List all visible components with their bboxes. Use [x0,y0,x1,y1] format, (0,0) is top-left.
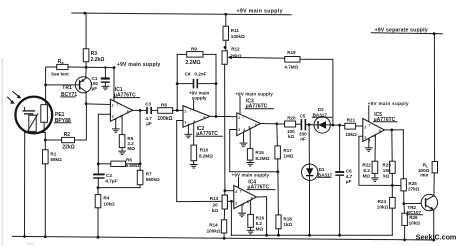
node IC5 output / R23 junction [390,129,393,132]
wire C4 branch right [198,83,216,85]
node R11/R12 junction [224,46,227,49]
svg-text:7: 7 [242,115,244,119]
svg-text:4.7: 4.7 [346,174,353,179]
svg-text:2: 2 [112,104,114,108]
svg-text:C5: C5 [300,114,306,119]
svg-text:8.2: 8.2 [256,221,263,226]
svg-text:See text: See text [51,71,69,76]
capacitor C1 leads [104,68,106,78]
svg-text:R12: R12 [231,47,240,52]
svg-text:R11: R11 [231,28,240,33]
wire IC1 pin7 supply drop [113,68,115,102]
svg-text:6: 6 [204,116,206,120]
op-amp IC2 uA776TC [183,106,210,128]
TR1 collector (down) [80,87,86,91]
ground below IC2 pin4 [185,134,193,138]
resistor R20 [285,121,296,127]
svg-text:C3: C3 [145,102,151,107]
TR2 collector (up) [426,196,434,201]
+9V main supply top rail [72,13,291,15]
node separate supply / RL junction [433,32,436,35]
resistor R9 [187,52,203,58]
svg-text:3: 3 [238,128,240,132]
ground below R16 [247,230,255,234]
svg-text:100kΩ: 100kΩ [231,34,245,39]
wire R16 bottom to ground [250,227,252,230]
svg-text:R25: R25 [408,181,417,186]
capacitor C2 plates [93,173,105,175]
svg-text:BC107: BC107 [407,210,422,215]
svg-text:C2: C2 [106,173,112,178]
svg-text:4: 4 [243,128,245,132]
wire IC4 output right then down to reference bus [256,197,266,235]
svg-text:100kΩ: 100kΩ [207,229,221,234]
svg-text:min: min [420,173,428,178]
wire R4 top lead [97,188,99,195]
wire R13-R14 link [223,209,225,220]
wire D1 branch down [308,125,310,165]
wire IC5 non-inverting input down to R23/R24 node [359,136,401,185]
wire IC1 feedback vertical (output to R6/R7) [139,110,141,170]
wire R10 bottom to ground [193,161,195,165]
diode D1 BA317 (in circle, pointing down) [302,164,318,180]
wire R26 bottom lead to rail [404,226,406,240]
photo element PE1 BPY88 (circle) [15,97,52,134]
ground below IC1 pin4 [112,129,120,133]
resistor R19 [285,57,300,63]
resistor RL [432,162,437,173]
wire R12 bottom lead down to R13 [224,64,226,190]
svg-text:2: 2 [235,201,237,205]
svg-text:nF: nF [300,137,306,142]
svg-text:BA317: BA317 [318,172,333,177]
resistor R17 [275,146,281,159]
wire PE1 left leg to ground rail [24,133,26,237]
svg-text:6: 6 [127,110,129,114]
svg-text:3: 3 [364,136,366,140]
svg-text:D2: D2 [318,107,324,112]
svg-text:5.6MΩ: 5.6MΩ [126,163,140,168]
PE1 internal bottom connector [25,132,46,134]
resistor R4 [95,195,101,208]
wire R14 bottom lead to rail [223,233,225,238]
wire IC2 feedback left vertical [176,54,178,110]
wire R20 to C5 [296,123,301,125]
wire IC2 pin7 supply stub [193,100,195,110]
svg-text:R9: R9 [191,47,197,52]
capacitor C6 plates [335,171,344,173]
wire C5 to D2 [306,124,314,126]
svg-text:0.2nF: 0.2nF [194,72,206,77]
svg-text:100kΩ: 100kΩ [157,116,172,122]
op-amp IC5 uA776TC [363,119,385,142]
node bus / R18 [277,234,280,237]
resistor R23 [390,161,396,173]
wire R25 bottom to TR2 base node [403,191,405,204]
wire R24 bottom lead to reference bus [391,208,393,235]
svg-text:kΩ: kΩ [212,208,219,213]
resistor R15 [247,149,253,161]
wire R11 bottom lead [225,40,227,51]
wire C4 branch left [177,83,193,85]
svg-text:2: 2 [184,109,186,113]
wire R26 top lead [403,204,406,214]
svg-text:2.2kΩ: 2.2kΩ [91,57,105,63]
R12 wiper arrow from R19 [230,56,285,59]
resistor R7 [137,170,143,184]
node: rail / R3 junction [84,12,87,15]
wire D1 bottom to reference bus [309,180,311,235]
resistor R13 [222,195,227,209]
node R2 tap on PE1/R1 line [44,139,47,142]
wire IC1 non-inverting input to feedback node [98,114,110,174]
svg-text:R18: R18 [283,217,292,222]
resistor Ra [57,64,68,69]
wire IC5 output down to R25 [402,130,404,179]
node W1 / R17-R18 junction [277,170,280,173]
wire R23 bottom lead [391,173,393,185]
svg-text:1MΩ: 1MΩ [283,154,293,159]
svg-text:BA317: BA317 [313,112,328,117]
ground below IC3 pin4 [240,143,248,147]
PE1 lead from TR1 base node down into cell [45,85,47,105]
+9V separate supply line [371,33,442,34]
svg-text:R14: R14 [209,223,218,228]
svg-text:2: 2 [238,116,240,120]
wire IC2 feedback right vertical [215,54,217,117]
node IC3 output / R19 / R17 junction [275,122,278,125]
node rail / R14 [223,237,226,240]
transistor TR2 BC107 (NPN) [421,194,437,210]
node R6 left junction [97,162,100,165]
svg-text:MΩ: MΩ [256,226,264,231]
wire drop to reference bus [230,201,232,235]
svg-text:2.2MΩ: 2.2MΩ [185,60,200,66]
resistor R3 [83,49,89,62]
svg-text:6: 6 [255,123,257,127]
svg-text:R22: R22 [362,162,371,167]
ground below IC4 pin4 [238,213,246,217]
svg-text:20: 20 [213,203,219,208]
resistor R10 [191,145,197,161]
svg-text:kΩ: kΩ [288,134,295,139]
wire IC3 output [261,123,285,126]
node R19 drop junction [332,124,335,127]
svg-text:+9V separate supply: +9V separate supply [375,27,428,33]
wire R8 to IC2 inverting input [173,109,183,111]
svg-text:kΩ: kΩ [383,173,390,178]
node R23/R24/IC5 pin3 junction [391,184,394,187]
resistor R25 [401,179,407,191]
wire IC5 pin7 supply stub [368,106,370,122]
wire R23 top lead [391,130,393,161]
wire R3 bottom lead [85,62,87,68]
svg-text:+9V main supply: +9V main supply [232,172,270,177]
node rail / R4 [97,236,100,239]
svg-text:R24: R24 [378,199,387,204]
svg-text:27kΩ: 27kΩ [408,186,420,191]
resistor R22 [372,161,378,173]
svg-text:SeekIC.com: SeekIC.com [416,232,457,241]
op-amp IC1 uA776TC [110,99,132,121]
svg-text:μF: μF [92,86,98,91]
resistor R5 [119,135,125,148]
ground rail (bottom) [13,236,434,240]
wire R17 top lead [276,124,279,146]
svg-text:4.7MΩ: 4.7MΩ [284,65,298,70]
svg-text:R23: R23 [382,162,391,167]
wire R6 right lead [126,163,141,165]
svg-text:10kΩ: 10kΩ [377,204,389,209]
PE1 internal gate bars [23,111,36,114]
wire IC2 non-inverting input down (to IC4 pin2 line) [177,121,183,202]
wire IC2 pin3 bus link to IC4 inverting input [177,200,234,202]
node R6 right junction [139,162,142,165]
IC1 pin8 lead to R5 [121,116,123,135]
svg-text:4.7μF: 4.7μF [105,178,117,183]
node TR1 collector / R2 / IC1 input [85,102,88,105]
diode D2 BA317 (in circle, pointing left) [314,117,330,133]
resistor R24 [390,197,396,208]
node C4 right junction [215,82,218,85]
svg-text:R15: R15 [255,150,264,155]
svg-text:R8: R8 [161,103,167,108]
node Ra/R3/TR1 emitter junction [85,66,88,69]
node base / Ra junction [44,84,47,87]
wire R19 right lead down to D2 output node [300,59,333,125]
wire IC1 output to C3 [133,109,147,111]
PE1 internal left box element with diagonal [29,115,36,131]
wire R2 left lead [45,139,61,141]
node C4 left junction [176,82,179,85]
wire R5 bottom to ground [121,148,123,151]
svg-text:6: 6 [379,129,381,133]
svg-text:10kΩ: 10kΩ [409,221,421,226]
IC1 pin4 ground lead [115,119,117,129]
wire Ra left lead down to base node [46,67,57,85]
svg-text:8.2: 8.2 [363,168,370,173]
ground below IC5 pin4 [365,148,373,152]
resistor R1 [43,150,49,164]
svg-text:3: 3 [112,115,114,119]
wire TR1 base [46,84,80,86]
capacitor C4 (series) [193,79,195,89]
svg-text:2: 2 [364,125,366,129]
svg-text:R17: R17 [283,148,292,153]
svg-text:μF: μF [346,179,352,184]
wire R18 bottom lead to bus [278,229,280,235]
node C6 drop junction [338,124,341,127]
PE1 internal right box element [41,105,48,123]
node rail / R1 [44,235,47,238]
wire R18 top lead [277,172,280,215]
svg-text:R21: R21 [347,118,356,123]
node: rail / R11 junction [224,13,227,16]
wire R9 left lead [177,53,187,55]
node bus / C6 [338,234,341,237]
node R25/R26/TR2 base junction [403,202,406,205]
svg-text:8: 8 [247,200,249,204]
op-amp IC3 uA776TC [237,113,261,136]
IC2 pin8 lead to R10 [193,123,195,145]
TR2 emitter (down) with NPN arrow [426,205,434,210]
wire IC3 non-inverting input (down then right to R17/R18 node) [230,130,278,172]
ground below R15 [246,163,254,167]
svg-text:1kΩ: 1kΩ [283,222,292,227]
wire R22 bottom to ground [374,173,376,177]
svg-text:R7: R7 [146,171,152,176]
resistor R11 [223,26,229,40]
capacitor C5 (series) [300,119,302,130]
resistor R6 [111,161,126,166]
wire C6 branch down [339,125,341,171]
node R8 / feedback R9-C4 junction [176,109,179,112]
node R12/R13/IC4 pin3 junction [224,189,227,192]
wire IC2 output to IC3 inverting input [210,115,237,117]
node rail / PE1 leg [23,235,26,238]
svg-text:7: 7 [240,189,242,193]
wire R4 bottom lead to rail [97,208,99,237]
wire C6 bottom to reference bus [339,176,341,235]
wire IC5 output [384,129,403,131]
wire R2 right lead up to collector node [75,104,87,140]
potentiometer R12 [222,51,227,65]
svg-text:μF: μF [146,121,152,126]
ground below R22 [371,178,379,182]
svg-text:R26: R26 [409,215,418,220]
svg-text:+9V main supply: +9V main supply [117,62,161,68]
svg-text:TR1: TR1 [62,85,72,91]
node bus drop junction [230,200,233,203]
svg-text:18kΩ: 18kΩ [345,132,357,137]
wire D2 to R21 [330,124,345,127]
svg-text:3: 3 [235,190,237,194]
node C2/R7/R4 junction [97,186,100,189]
resistor R18 [276,215,281,229]
svg-text:supply: supply [192,95,207,100]
svg-text:22kΩ: 22kΩ [62,144,74,150]
wire R21 to IC5 inverting input [356,125,363,127]
TR1 emitter (up) with PNP arrow [80,78,86,82]
svg-text:MΩ: MΩ [363,173,371,178]
IC2 pin4 ground lead [187,125,189,134]
capacitor C3 (series) [146,107,148,114]
transistor TR1 BCY71 (PNP) [75,77,91,93]
IC5 pin4 ground lead [368,138,370,147]
svg-text:+9V main supply: +9V main supply [368,101,409,106]
scan artifact: bottom-left speckle [27,243,34,245]
wire collector node to IC1 inverting input [86,103,110,106]
reference bus (above rail) [231,234,392,236]
IC4 pin8 lead to R16 [250,200,252,214]
resistor R13 (box over wire) [222,195,227,209]
resistor R21 [345,123,356,129]
IC4 pin4 ground lead [241,205,243,213]
wire RL top lead from separate supply [433,34,435,162]
wire PE1 bottom lead to R1 [44,133,46,150]
node IC1 output / feedback junction [139,109,142,112]
svg-text:R1: R1 [50,151,56,156]
wire emitter supply line to C1 and IC1 supply drop [86,66,114,68]
node C5 / D1 branch junction [308,123,311,126]
node bus / IC4 output [265,234,268,237]
wire IC3 pin7 supply stub [239,96,241,114]
svg-text:560kΩ: 560kΩ [146,177,160,182]
wire R15 bottom to ground [249,160,251,162]
capacitor C1 plates [101,77,110,79]
scan artifact: left page edge [1,58,3,246]
svg-text:3: 3 [184,120,186,124]
svg-text:R13: R13 [210,196,219,201]
wire R17 bottom lead [277,159,279,172]
ground below C1 [101,86,109,89]
svg-text:56kΩ: 56kΩ [50,157,62,162]
svg-text:R19: R19 [287,50,296,55]
wire R1 bottom lead to rail [44,164,46,237]
node C1 top junction [104,66,106,68]
wire TR2 base [404,202,426,204]
svg-text:150: 150 [383,168,391,173]
resistor R8 [158,108,173,114]
svg-text:R2: R2 [64,132,71,138]
wire R11 top lead [225,14,227,26]
wire divider tap to IC4 non-inverting input [225,190,234,192]
svg-text:7: 7 [369,123,371,127]
resistor R16 [248,214,254,227]
svg-text:7: 7 [190,108,192,112]
wire R13 top lead [224,191,226,196]
IC5 pin8 lead to R22 [374,135,376,161]
svg-text:+9V main supply: +9V main supply [237,9,283,15]
svg-text:10kΩ: 10kΩ [103,201,115,206]
svg-text:R4: R4 [103,196,109,201]
ground below R5 [118,151,126,155]
svg-text:+9V main supply: +9V main supply [235,91,273,96]
wire R3 top lead [85,13,87,49]
node IC2 output / feedback junction [215,115,218,118]
wire R9 right lead [203,53,216,55]
resistor R2 [62,137,75,142]
wire Ra right lead [68,66,86,68]
wire C3 to R8 [152,109,158,111]
resistor R14 [221,220,226,233]
resistor R26 [402,213,408,225]
wire IC4 pin7 supply stub [238,177,240,188]
node IC1 supply corner [113,66,116,69]
op-amp IC4 uA776TC [234,185,257,208]
wire R24 top lead [391,185,393,197]
svg-text:Ra: Ra [58,59,65,65]
light arrows into PE1 [7,91,18,102]
wire R6 left lead [98,163,111,165]
svg-text:8.2MΩ: 8.2MΩ [255,156,269,161]
svg-text:R20: R20 [287,116,296,121]
svg-text:MΩ: MΩ [127,146,135,151]
svg-text:8.2MΩ: 8.2MΩ [199,153,213,158]
node rail end / TR2 emitter [432,239,435,242]
IC3 pin4 ground lead [243,132,245,143]
ground below R10 [190,165,198,169]
IC3 pin8 lead to R15 [249,129,251,149]
wire R7 bottom to C2 bottom node [98,185,140,188]
node rail / R26 [403,238,406,241]
svg-text:7: 7 [116,103,118,107]
svg-text:C4: C4 [185,72,191,77]
node bus / D1 [308,234,311,237]
svg-text:R10: R10 [200,147,209,152]
